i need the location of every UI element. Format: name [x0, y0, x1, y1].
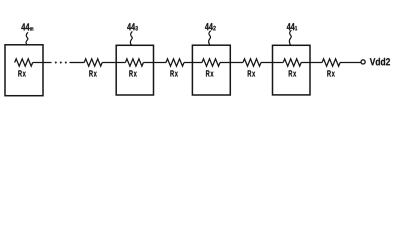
label 44m — [21, 23, 29, 30]
label 443 — [127, 23, 135, 30]
label 442 — [205, 23, 213, 30]
box 442 — [192, 45, 230, 95]
leader squiggle 441 — [289, 30, 291, 45]
ellipsis dots (chain continues) — [55, 62, 67, 64]
resistor Rx between 442 and 441 — [243, 59, 261, 66]
wire into box 442 — [184, 62, 202, 64]
leader squiggle 44m — [26, 32, 28, 45]
label 441 subscript 1 — [295, 26, 297, 30]
resistor Rx between 44m and 443 — [84, 59, 102, 66]
label 44m subscript m — [30, 27, 33, 30]
wire into box 441 — [261, 62, 283, 64]
wire from 441 to output resistor — [301, 62, 322, 64]
label 441 — [287, 23, 295, 30]
leader squiggle 442 — [209, 31, 211, 45]
label Rx (output) — [327, 70, 335, 76]
wire from Rx(44m) through box edge to ellipsis — [33, 62, 52, 64]
wire from 442 to next resistor — [220, 62, 243, 64]
box 441 — [273, 45, 311, 95]
label 442 subscript 2 — [213, 26, 216, 30]
label Rx (between 44m and 443) — [89, 70, 97, 76]
label Rx (between 443 and 442) — [170, 70, 178, 76]
resistor Rx in 441 — [283, 59, 301, 66]
resistor Rx between 443 and 442 — [166, 59, 184, 66]
box 443 — [116, 45, 153, 95]
resistor Rx in 44m (zigzag) — [15, 59, 33, 66]
wire to Vdd2 terminal — [340, 62, 361, 64]
resistor Rx in 442 — [202, 59, 220, 66]
label Rx (44m) — [18, 70, 26, 76]
label Rx (443) — [129, 70, 137, 76]
label Rx (442) — [206, 70, 214, 76]
resistor Rx in 443 — [125, 59, 143, 66]
output resistor Rx — [322, 59, 340, 66]
box 44m — [5, 45, 43, 96]
wire into box 443 — [102, 62, 125, 64]
label Rx (between 442 and 441) — [248, 70, 256, 76]
terminal circle Vdd2 — [361, 60, 365, 64]
wire from 443 to next resistor — [143, 62, 166, 64]
leader squiggle 443 — [130, 31, 132, 45]
label Rx (441) — [289, 70, 297, 76]
wire from ellipsis to next resistor — [70, 62, 85, 64]
label Vdd2 — [370, 58, 390, 66]
label 443 subscript 3 — [135, 26, 137, 31]
